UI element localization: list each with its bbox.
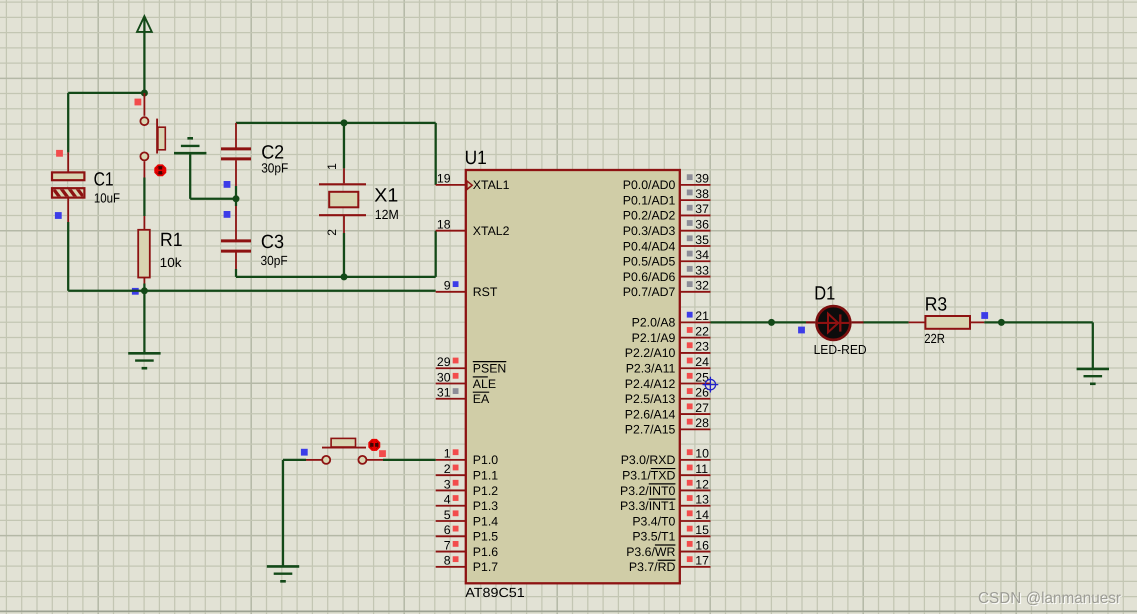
svg-text:P1.5: P1.5 — [473, 530, 498, 544]
svg-text:3: 3 — [444, 477, 451, 491]
svg-text:P3.1/TXD: P3.1/TXD — [622, 468, 675, 482]
svg-text:13: 13 — [695, 493, 709, 507]
svg-text:12M: 12M — [375, 207, 399, 222]
svg-text:LED-RED: LED-RED — [814, 342, 867, 357]
svg-text:30: 30 — [437, 370, 451, 384]
svg-text:P2.5/A13: P2.5/A13 — [625, 392, 676, 406]
svg-text:C3: C3 — [261, 232, 284, 253]
svg-text:P1.4: P1.4 — [473, 514, 498, 528]
svg-text:5: 5 — [444, 508, 451, 522]
svg-text:P0.7/AD7: P0.7/AD7 — [623, 285, 676, 299]
svg-text:10k: 10k — [160, 255, 182, 270]
svg-text:P1.7: P1.7 — [473, 560, 498, 574]
svg-text:P3.7/RD: P3.7/RD — [629, 560, 676, 574]
svg-text:30pF: 30pF — [261, 253, 288, 268]
svg-text:24: 24 — [695, 355, 709, 369]
svg-text:11: 11 — [695, 462, 708, 476]
svg-text:P3.5/T1: P3.5/T1 — [632, 530, 675, 544]
svg-text:P0.3/AD3: P0.3/AD3 — [623, 224, 676, 238]
svg-text:P0.2/AD2: P0.2/AD2 — [623, 209, 676, 223]
svg-text:P3.3/INT1: P3.3/INT1 — [620, 499, 676, 513]
svg-text:RST: RST — [473, 285, 498, 299]
svg-text:P0.1/AD1: P0.1/AD1 — [623, 193, 676, 207]
svg-text:P0.6/AD6: P0.6/AD6 — [623, 270, 676, 284]
svg-text:ALE: ALE — [473, 377, 496, 391]
svg-text:7: 7 — [444, 538, 451, 552]
svg-text:X1: X1 — [374, 185, 398, 206]
svg-text:4: 4 — [444, 493, 451, 507]
svg-text:P2.4/A12: P2.4/A12 — [625, 377, 676, 391]
svg-text:XTAL2: XTAL2 — [473, 224, 510, 238]
svg-text:16: 16 — [695, 538, 709, 552]
svg-text:R1: R1 — [160, 230, 183, 251]
svg-text:D1: D1 — [814, 283, 835, 304]
svg-text:17: 17 — [695, 554, 709, 568]
svg-text:P0.0/AD0: P0.0/AD0 — [623, 178, 676, 192]
svg-text:P3.6/WR: P3.6/WR — [626, 545, 675, 559]
svg-text:22: 22 — [695, 324, 709, 338]
svg-text:1: 1 — [325, 163, 339, 170]
svg-text:37: 37 — [695, 202, 709, 216]
svg-text:28: 28 — [695, 416, 709, 430]
svg-text:35: 35 — [695, 233, 709, 247]
svg-text:P0.5/AD5: P0.5/AD5 — [623, 255, 676, 269]
svg-text:P3.0/RXD: P3.0/RXD — [621, 453, 676, 467]
svg-text:2: 2 — [325, 229, 339, 236]
svg-text:P2.2/A10: P2.2/A10 — [625, 346, 676, 360]
svg-text:P2.7/A15: P2.7/A15 — [625, 423, 676, 437]
svg-text:P1.3: P1.3 — [473, 499, 498, 513]
svg-text:EA: EA — [473, 392, 490, 406]
svg-text:P1.0: P1.0 — [473, 453, 498, 467]
svg-text:22R: 22R — [924, 331, 945, 346]
svg-text:19: 19 — [437, 172, 451, 186]
svg-text:P2.0/A8: P2.0/A8 — [632, 316, 676, 330]
svg-text:R3: R3 — [925, 295, 948, 316]
svg-text:36: 36 — [695, 218, 709, 232]
svg-text:C1: C1 — [94, 169, 114, 190]
svg-text:2: 2 — [444, 462, 451, 476]
svg-text:10uF: 10uF — [94, 191, 120, 206]
svg-text:P1.1: P1.1 — [473, 468, 498, 482]
svg-text:P2.3/A11: P2.3/A11 — [626, 362, 676, 376]
svg-text:6: 6 — [444, 523, 451, 537]
svg-text:21: 21 — [695, 309, 709, 323]
svg-text:P2.1/A9: P2.1/A9 — [632, 331, 676, 345]
svg-text:12: 12 — [695, 477, 709, 491]
svg-text:31: 31 — [437, 386, 451, 400]
svg-text:AT89C51: AT89C51 — [465, 585, 524, 600]
svg-text:27: 27 — [695, 401, 709, 415]
svg-text:P0.4/AD4: P0.4/AD4 — [623, 239, 676, 253]
svg-text:29: 29 — [437, 355, 451, 369]
svg-text:XTAL1: XTAL1 — [473, 178, 510, 192]
svg-text:10: 10 — [695, 447, 709, 461]
svg-text:9: 9 — [444, 279, 451, 293]
svg-text:8: 8 — [444, 554, 451, 568]
svg-text:P1.6: P1.6 — [473, 545, 498, 559]
svg-text:P3.2/INT0: P3.2/INT0 — [620, 484, 676, 498]
svg-text:P1.2: P1.2 — [473, 484, 498, 498]
svg-text:18: 18 — [437, 218, 451, 232]
svg-text:34: 34 — [695, 248, 709, 262]
svg-text:39: 39 — [695, 172, 709, 186]
svg-text:26: 26 — [695, 386, 709, 400]
svg-text:CSDN @lanmanuesr: CSDN @lanmanuesr — [978, 590, 1121, 607]
svg-text:PSEN: PSEN — [473, 362, 507, 376]
svg-text:33: 33 — [695, 263, 709, 277]
svg-text:23: 23 — [695, 340, 709, 354]
svg-text:15: 15 — [695, 523, 709, 537]
svg-text:P3.4/T0: P3.4/T0 — [632, 514, 675, 528]
svg-text:P2.6/A14: P2.6/A14 — [625, 407, 676, 421]
svg-text:U1: U1 — [465, 148, 487, 169]
svg-text:1: 1 — [444, 447, 451, 461]
svg-text:32: 32 — [695, 279, 709, 293]
svg-text:25: 25 — [695, 370, 709, 384]
svg-text:38: 38 — [695, 187, 709, 201]
svg-text:14: 14 — [695, 508, 709, 522]
svg-text:30pF: 30pF — [261, 161, 288, 176]
